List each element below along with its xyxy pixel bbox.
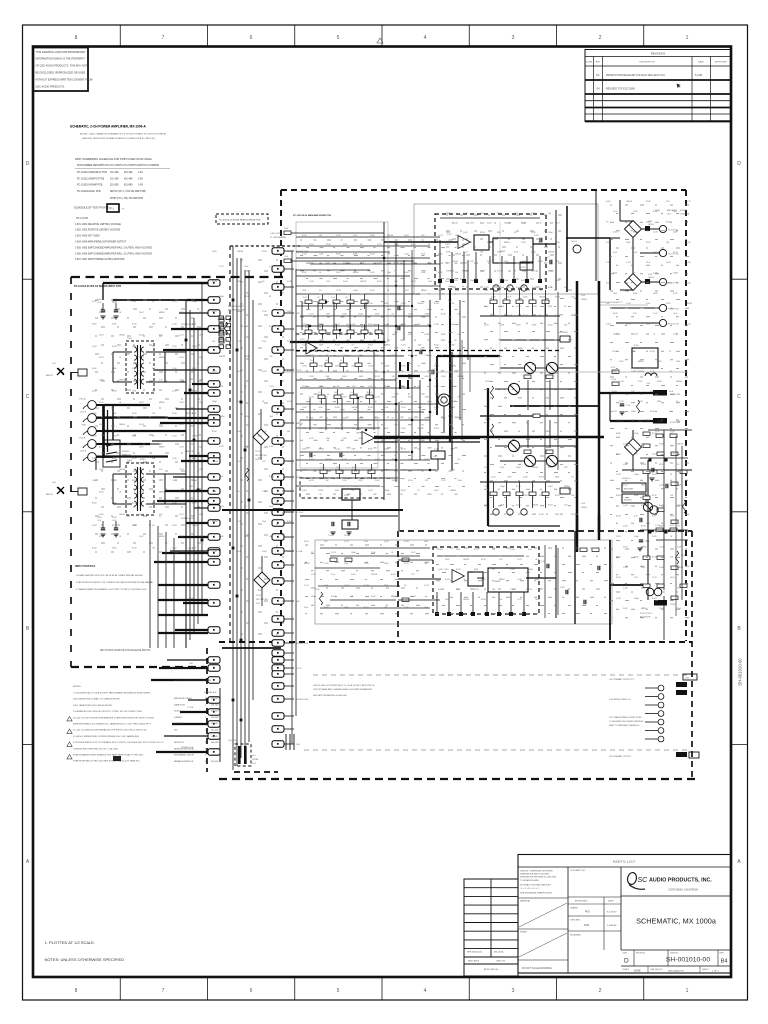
svg-text:Q-507: Q-507 (92, 480, 97, 482)
svg-text:R-524: R-524 (262, 251, 267, 253)
svg-text:MJ15024 G: MJ15024 G (622, 478, 631, 480)
svg-text:MR854: MR854 (385, 469, 391, 471)
svg-text:FINISH: FINISH (520, 932, 527, 934)
relay K-501 (632, 348, 658, 368)
svg-text:100pF: 100pF (192, 480, 197, 482)
svg-text:R-541: R-541 (523, 315, 528, 317)
svg-text:TP-5 (TP-13): TP-5 (TP-13) (668, 324, 679, 326)
svg-text:501+801: 501+801 (211, 730, 218, 732)
thermal breaker TH-501 (573, 245, 581, 253)
svg-text:CIRCUIT NAME AND CHANNEL A AND: CIRCUIT NAME AND CHANNEL A AND CH-B PART… (313, 688, 373, 691)
svg-text:MR854: MR854 (421, 290, 427, 292)
svg-text:47uF: 47uF (385, 303, 389, 305)
svg-text:47uF: 47uF (262, 341, 266, 343)
V-feed thick vertical (487, 388, 489, 526)
svg-text:STEREO: STEREO (122, 451, 130, 453)
svg-text:D-505: D-505 (269, 446, 274, 448)
svg-text:Q-507: Q-507 (262, 371, 267, 373)
svg-text:DWG NO: DWG NO (670, 953, 679, 955)
main amplifier PCB dashed outline left (280, 190, 282, 642)
svg-text:RESISTOR NETWORK: RESISTOR NETWORK (174, 748, 195, 750)
svg-text:R-541: R-541 (244, 296, 249, 298)
svg-text:MR854: MR854 (499, 579, 505, 581)
svg-text:R-533: R-533 (456, 569, 461, 571)
svg-text:C-517: C-517 (517, 559, 522, 561)
svg-text:MR854: MR854 (425, 417, 431, 419)
svg-text:C-517: C-517 (179, 424, 184, 426)
svg-text:R-506: R-506 (616, 433, 621, 435)
svg-text:22pF: 22pF (304, 607, 308, 609)
svg-text:R-506: R-506 (616, 495, 621, 497)
svg-text:.01uF: .01uF (535, 559, 539, 561)
svg-text:22pF: 22pF (262, 521, 266, 523)
svg-text:MR854: MR854 (159, 536, 165, 538)
front-end gray outline (296, 222, 388, 342)
svg-text:R-541: R-541 (516, 486, 521, 488)
svg-text:U-501: U-501 (447, 234, 452, 236)
svg-text:.01uF: .01uF (219, 476, 223, 478)
svg-text:R-512: R-512 (463, 251, 468, 253)
svg-text:U-101: U-101 (300, 339, 305, 341)
svg-text:R-541: R-541 (302, 272, 307, 274)
svg-text:R-533: R-533 (404, 541, 409, 543)
power resistor R-502 (342, 489, 360, 500)
svg-text:.01uF: .01uF (199, 335, 203, 337)
svg-text:R-512: R-512 (555, 495, 560, 497)
svg-text:3: 3 (512, 35, 515, 41)
svg-text:BE DISCLOSED, REPRODUCED OR US: BE DISCLOSED, REPRODUCED OR USED (36, 72, 86, 75)
svg-text:100pF: 100pF (500, 486, 505, 488)
svg-text:R-541: R-541 (445, 579, 450, 581)
svg-text:R-533: R-533 (480, 232, 485, 234)
svg-text:C-510: C-510 (172, 413, 177, 415)
svg-text:C-531: C-531 (657, 421, 662, 423)
svg-text:TC: TC (122, 209, 125, 211)
svg-text:R-506: R-506 (219, 326, 224, 328)
svg-text:(SEE DWG, BRKT/100 PLUS WHAT: (SEE DWG, BRKT/100 PLUS WHAT IS PARTS LI… (82, 137, 156, 140)
svg-text:.01uF: .01uF (669, 391, 673, 393)
svg-text:47uF: 47uF (641, 505, 645, 507)
svg-text:COSTA MESA, CALIFORNIA: COSTA MESA, CALIFORNIA (668, 889, 698, 892)
svg-text:D: D (26, 161, 30, 167)
svg-text:6 Z-DIODES RATED 1/2 W, 5%: 6 Z-DIODES RATED 1/2 W, 5% SURFACE 1N 5.… (73, 741, 164, 744)
svg-text:D-505: D-505 (487, 223, 492, 225)
capacitor C-806 (546, 564, 548, 569)
svg-text:R-506: R-506 (92, 503, 97, 505)
svg-text:C-517: C-517 (441, 480, 446, 482)
svg-text:1N4148: 1N4148 (455, 253, 461, 255)
svg-text:C-510: C-510 (336, 235, 341, 237)
svg-text:.01uF: .01uF (428, 281, 432, 283)
svg-text:CH-2 TRANSFORMER CONNECTIONS: CH-2 TRANSFORMER CONNECTIONS (609, 716, 642, 719)
svg-text:RELEASED: RELEASED (570, 934, 582, 937)
output cluster wires (500, 367, 524, 369)
svg-text:PART NUMBERING SCHEDULE FOR PC: PART NUMBERING SCHEDULE FOR PCB'S USED I… (75, 157, 152, 161)
svg-text:C-510: C-510 (172, 368, 177, 370)
main amplifier PCB dashed outline right (685, 190, 687, 641)
svg-text:22pF: 22pF (392, 397, 396, 399)
lur divider (219, 688, 221, 762)
svg-text:(C-506 HI V WIREWOUND ON PWR: (C-506 HI V WIREWOUND ON PWR INTENSE SCH… (73, 735, 139, 738)
protect circuit outline gray (414, 204, 598, 294)
svg-text:R-506: R-506 (408, 397, 413, 399)
svg-text:C-510: C-510 (510, 549, 515, 551)
bus junction squares (232, 299, 235, 302)
svg-text:47uF: 47uF (451, 324, 455, 326)
svg-text:R-524: R-524 (408, 355, 413, 357)
svg-text:100pF: 100pF (634, 598, 639, 600)
svg-text:MR854: MR854 (638, 421, 644, 423)
svg-text:47uF: 47uF (192, 547, 196, 549)
svg-text:D-503: D-503 (581, 503, 585, 505)
svg-text:D-507: D-507 (269, 506, 274, 508)
svg-text:C-531: C-531 (653, 232, 658, 234)
svg-text:D-507: D-507 (555, 315, 560, 317)
svg-text:R-541: R-541 (497, 271, 502, 273)
svg-text:.01uF: .01uF (455, 235, 459, 237)
svg-text:D-505: D-505 (531, 251, 536, 253)
svg-text:1N4148: 1N4148 (532, 505, 538, 507)
svg-text:5-4-88: 5-4-88 (695, 74, 703, 77)
svg-text:Q-507: Q-507 (623, 588, 628, 590)
svg-text:PC-101010-00 MAIN AMPLIFIER PC: PC-101010-00 MAIN AMPLIFIER PCB (293, 214, 331, 217)
note triangle flags (67, 717, 72, 721)
svg-text:R-524: R-524 (548, 467, 553, 469)
svg-text:U-801: U-801 (444, 569, 449, 571)
svg-text:R-512: R-512 (364, 607, 369, 609)
svg-text:.01uF: .01uF (352, 386, 356, 388)
svg-text:R-541: R-541 (331, 596, 336, 598)
svg-text:R-512: R-512 (370, 253, 375, 255)
capacitor C-520 (639, 539, 644, 541)
svg-text:100pF: 100pF (192, 301, 197, 303)
svg-text:R-533: R-533 (425, 334, 430, 336)
svg-text:D-507: D-507 (619, 361, 624, 363)
svg-text:Q-507: Q-507 (309, 244, 314, 246)
svg-text:MR854: MR854 (633, 232, 639, 234)
svg-text:C-523: C-523 (172, 391, 177, 393)
resistor R-560 left (319, 592, 322, 605)
svg-text:R-533: R-533 (112, 301, 117, 303)
svg-text:C-523: C-523 (408, 313, 413, 315)
svg-text:1N4148: 1N4148 (418, 303, 424, 305)
svg-text:C-517: C-517 (491, 476, 496, 478)
svg-text:401-499: 401-499 (124, 178, 133, 180)
svg-text:LM339: LM339 (494, 581, 501, 583)
svg-text:.01uF: .01uF (418, 407, 422, 409)
svg-text:R-541: R-541 (652, 474, 657, 476)
svg-text:1N4148: 1N4148 (371, 574, 377, 576)
svg-text:DIMENSIONS PER ANSI Y14.5M-198: DIMENSIONS PER ANSI Y14.5M-1982 (520, 876, 557, 879)
svg-text:502+802: 502+802 (211, 698, 218, 700)
svg-text:C-510: C-510 (172, 458, 177, 460)
svg-text:Q-507: Q-507 (623, 464, 628, 466)
fold mark top (377, 38, 383, 43)
svg-text:J-801 APPROX WIRE LOC: J-801 APPROX WIRE LOC (609, 698, 631, 701)
svg-text:Q-507: Q-507 (302, 490, 307, 492)
svg-text:1N4148: 1N4148 (532, 467, 538, 469)
svg-text:R-506: R-506 (497, 213, 502, 215)
svg-text:C-531: C-531 (453, 280, 458, 282)
svg-text:J-505 J-805 SWITCHMODE/AMPL: J-505 J-805 SWITCHMODE/AMPLIFIER RAIL: C… (75, 246, 152, 249)
LED bridge CH2 (254, 572, 270, 588)
connector J-101 pad column (272, 248, 284, 254)
svg-text:R-512: R-512 (375, 376, 380, 378)
svg-text:D-505: D-505 (99, 335, 104, 337)
svg-text:C-517: C-517 (650, 391, 655, 393)
svg-text:1N4148: 1N4148 (458, 376, 464, 378)
svg-text:22pF: 22pF (455, 290, 459, 292)
output transistor Q-506 (546, 455, 557, 466)
svg-text:INTEGRATED CIRCUIT: INTEGRATED CIRCUIT (174, 754, 195, 757)
svg-text:R-541: R-541 (99, 357, 104, 359)
svg-text:R-541: R-541 (309, 397, 314, 399)
svg-text:REV NOTES: REMOVE FOR RELEASE: REV NOTES: REMOVE FOR RELEASE PRINTS (100, 649, 151, 652)
svg-text:R-506: R-506 (287, 521, 292, 523)
header J-512 CH1 (653, 390, 667, 396)
svg-text:R-524: R-524 (377, 281, 382, 283)
svg-text:C-510: C-510 (623, 505, 628, 507)
svg-text:D-505: D-505 (445, 559, 450, 561)
svg-text:MR854: MR854 (212, 521, 218, 523)
svg-text:REP-001001-00: REP-001001-00 (467, 952, 483, 954)
rectifier diode block MJ-502 (622, 494, 646, 503)
svg-text:SPKR/BR CH-B: SPKR/BR CH-B (181, 518, 194, 520)
resistor R-561 (330, 558, 337, 562)
transformer pin circles (658, 685, 664, 691)
svg-text:Q-507: Q-507 (463, 232, 468, 234)
svg-text:R-524: R-524 (408, 480, 413, 482)
svg-text:J- CH-A: J- CH-A (187, 706, 194, 709)
zone tick marks sides (23, 278, 34, 280)
svg-text:J-40: J-40 (52, 482, 56, 484)
svg-text:R-533: R-533 (364, 585, 369, 587)
svg-text:MR854: MR854 (385, 345, 391, 347)
svg-text:22pF: 22pF (673, 232, 677, 234)
svg-text:C-523: C-523 (491, 315, 496, 317)
svg-text:101-199: 101-199 (110, 172, 119, 174)
svg-text:D-505: D-505 (659, 567, 664, 569)
svg-text:C-517: C-517 (179, 514, 184, 516)
main output node thick wire (374, 436, 604, 439)
svg-text:PC-101040-00: PC-101040-00 (77, 191, 93, 193)
capacitor C-808 (565, 590, 567, 595)
svg-text:R-524: R-524 (612, 391, 617, 393)
svg-text:C-523: C-523 (172, 435, 177, 437)
output transistor Q-505 (524, 455, 535, 466)
svg-text:D-507: D-507 (623, 485, 628, 487)
svg-text:R-541: R-541 (370, 290, 375, 292)
svg-text:4: 4 (424, 988, 427, 994)
svg-text:22pF: 22pF (352, 449, 356, 451)
svg-text:1N4148: 1N4148 (119, 514, 125, 516)
svg-text:47uF: 47uF (331, 574, 335, 576)
svg-text:TRANSISTOR: TRANSISTOR (174, 735, 187, 738)
svg-text:BRIDGE RECTIFIER: BRIDGE RECTIFIER (174, 698, 192, 700)
svg-text:SCHEMATIC, 2-CH POWER AMPLIFIE: SCHEMATIC, 2-CH POWER AMPLIFIER, MX-1000… (70, 124, 146, 128)
wire to J-512 (600, 392, 653, 394)
svg-text:L-501: L-501 (646, 383, 650, 385)
svg-text:AUDIO PRODUCTS, INC.: AUDIO PRODUCTS, INC. (649, 878, 712, 884)
svg-text:3: 3 (512, 988, 515, 994)
svg-text:C-510: C-510 (172, 323, 177, 325)
feedback network wires (296, 236, 440, 238)
svg-text:R-512: R-512 (132, 323, 137, 325)
svg-text:1-99: 1-99 (138, 178, 143, 180)
svg-text:47uF: 47uF (192, 368, 196, 370)
svg-text:C-517: C-517 (555, 223, 560, 225)
svg-text:R-506: R-506 (324, 607, 329, 609)
svg-text:22pF: 22pF (500, 325, 504, 327)
power resistor R-503 (342, 520, 358, 529)
svg-text:1N4148: 1N4148 (626, 201, 632, 203)
output terminal TP-2 (659, 249, 666, 256)
svg-text:J-10: J-10 (52, 363, 56, 365)
svg-text:C-510: C-510 (497, 251, 502, 253)
svg-text:C-531: C-531 (179, 357, 184, 359)
svg-text:R-533: R-533 (359, 313, 364, 315)
comparator block U-802 (468, 572, 483, 586)
svg-text:R-524: R-524 (342, 459, 347, 461)
svg-text:PKO: PKO (585, 912, 590, 914)
svg-text:.01uF: .01uF (392, 459, 396, 461)
svg-text:SETUP (CH 1, CH2 ON AMP PCB): SETUP (CH 1, CH2 ON AMP PCB) (110, 190, 146, 193)
svg-text:22pF: 22pF (319, 253, 323, 255)
protect1 vertical rail (566, 206, 568, 292)
switch S-1 stereo parallel (103, 440, 120, 467)
svg-text:.01uF: .01uF (324, 585, 328, 587)
svg-text:R-506: R-506 (438, 589, 443, 591)
svg-text:D-507: D-507 (139, 536, 144, 538)
svg-text:AMP PCB: AMP PCB (92, 184, 103, 187)
svg-text:MX-1000a: MX-1000a (494, 952, 504, 954)
revision table (585, 50, 731, 122)
svg-text:CH-2: CH-2 (256, 603, 260, 605)
svg-text:D-505: D-505 (351, 574, 356, 576)
main amplifier PCB dashed outline bottom (219, 641, 692, 643)
limiter dashed strip 2 (300, 478, 384, 498)
svg-text:C-523: C-523 (612, 411, 617, 413)
svg-text:22pF: 22pF (613, 293, 617, 295)
svg-text:C-531: C-531 (324, 563, 329, 565)
svg-text:D-507: D-507 (623, 608, 628, 610)
svg-text:C-523: C-523 (342, 417, 347, 419)
svg-text:R-541: R-541 (99, 536, 104, 538)
svg-text:22pF: 22pF (287, 311, 291, 313)
svg-text:R-512: R-512 (548, 325, 553, 327)
svg-text:D-507: D-507 (404, 290, 409, 292)
svg-text:J-510: J-510 (670, 604, 675, 606)
svg-text:WITHOUT EXPRESS WRITTEN CONSEN: WITHOUT EXPRESS WRITTEN CONSENT FROM (36, 78, 93, 81)
bridge feed wires (620, 220, 633, 222)
svg-text:R-512: R-512 (132, 368, 137, 370)
IC U-803 (488, 568, 528, 592)
protect inner dashed box (435, 214, 546, 289)
svg-text:C-510: C-510 (623, 567, 628, 569)
svg-text:BRIDGE: BRIDGE (140, 463, 148, 465)
svg-text:R-541: R-541 (633, 334, 638, 336)
svg-text:.01uF: .01uF (446, 232, 450, 234)
lower right wires (640, 457, 688, 459)
clip limiter dashed strip (296, 334, 384, 351)
capacitor C-401 (101, 527, 106, 529)
svg-text:APPROVALS: APPROVALS (575, 900, 588, 903)
svg-text:MR854: MR854 (319, 449, 325, 451)
svg-text:.01uF: .01uF (392, 334, 396, 336)
svg-text:C-517: C-517 (304, 585, 309, 587)
svg-text:T1 CPR HEADER: T1 CPR HEADER (270, 236, 287, 239)
svg-text:101-199: 101-199 (110, 178, 119, 180)
svg-text:MR854: MR854 (571, 315, 577, 317)
svg-text:100pF: 100pF (507, 315, 512, 317)
resistor R-533 (675, 551, 678, 564)
svg-text:C-531: C-531 (375, 397, 380, 399)
svg-text:C-531: C-531 (484, 325, 489, 327)
svg-text:J-503 J-803 NOT USED: J-503 J-803 NOT USED (75, 236, 100, 238)
svg-text:V+ CH-A: V+ CH-A (296, 511, 304, 514)
svg-text:SIZE: SIZE (623, 953, 628, 955)
svg-text:100pF: 100pF (385, 365, 390, 367)
svg-text:C-531: C-531 (237, 521, 242, 523)
svg-text:C-517: C-517 (219, 266, 224, 268)
svg-text:22pF: 22pF (418, 345, 422, 347)
svg-text:MR854: MR854 (159, 447, 165, 449)
svg-text:.01uF: .01uF (97, 302, 101, 304)
application block (464, 879, 518, 976)
gray pcb outline horizontal (282, 371, 688, 373)
wire vertical bus group (232, 246, 234, 770)
svg-text:C-517: C-517 (287, 461, 292, 463)
svg-text:22pF: 22pF (538, 242, 542, 244)
svg-text:R-506: R-506 (302, 428, 307, 430)
svg-text:1 BOARD SHIPPED WITH XLR CBL: 1 BOARD SHIPPED WITH XLR CBL IN B1 AS JO… (76, 574, 143, 577)
svg-text:R-533: R-533 (451, 407, 456, 409)
svg-text:1N4148: 1N4148 (326, 459, 332, 461)
svg-text:MR854: MR854 (641, 485, 647, 487)
cursor arrow artifact (677, 84, 681, 89)
svg-text:AMP IN: AMP IN (46, 493, 53, 496)
svg-text:2: 2 (599, 35, 602, 41)
svg-text:R-541: R-541 (99, 312, 104, 314)
op-amp U-102A (362, 432, 374, 445)
svg-text:C-523: C-523 (172, 525, 177, 527)
svg-text:DRAWN: DRAWN (570, 907, 578, 910)
svg-text:CH-A CH-B: CH-A CH-B (680, 213, 690, 216)
svg-text:C-516: C-516 (626, 405, 630, 407)
svg-text:R-541: R-541 (650, 351, 655, 353)
svg-text:C-102: C-102 (328, 535, 332, 537)
svg-text:R-512: R-512 (335, 303, 340, 305)
resistor column R-531 (656, 528, 663, 532)
svg-text:(MODEL: T-A157, VARIATION SCHE: (MODEL: T-A157, VARIATION SCHEMATIC NO, … (80, 133, 166, 136)
title block left column (567, 867, 569, 973)
svg-text:PCB NUMBER DESCRIPTION CH-: PCB NUMBER DESCRIPTION CH-1 PARTS CH-2 P… (77, 164, 160, 167)
limiter dashed rail long (296, 350, 560, 352)
svg-text:MR854: MR854 (638, 361, 644, 363)
svg-text:LAST USED REFERENCE DESIGNATOR: LAST USED REFERENCE DESIGNATORS (174, 679, 212, 682)
svg-text:R-512: R-512 (652, 433, 657, 435)
svg-text:R-506: R-506 (342, 376, 347, 378)
svg-text:.01uF: .01uF (507, 514, 511, 516)
svg-text:100pF: 100pF (394, 244, 399, 246)
J-CH1 stub wires (150, 282, 208, 284)
wire vertical bus input pcb (185, 300, 187, 648)
svg-text:C-112: C-112 (432, 369, 436, 371)
svg-text:Q-507: Q-507 (92, 391, 97, 393)
thermistor circle TH-502 (646, 588, 654, 596)
svg-text:REVISED TCF ECO 2660: REVISED TCF ECO 2660 (606, 88, 635, 91)
svg-text:C-523: C-523 (531, 232, 536, 234)
